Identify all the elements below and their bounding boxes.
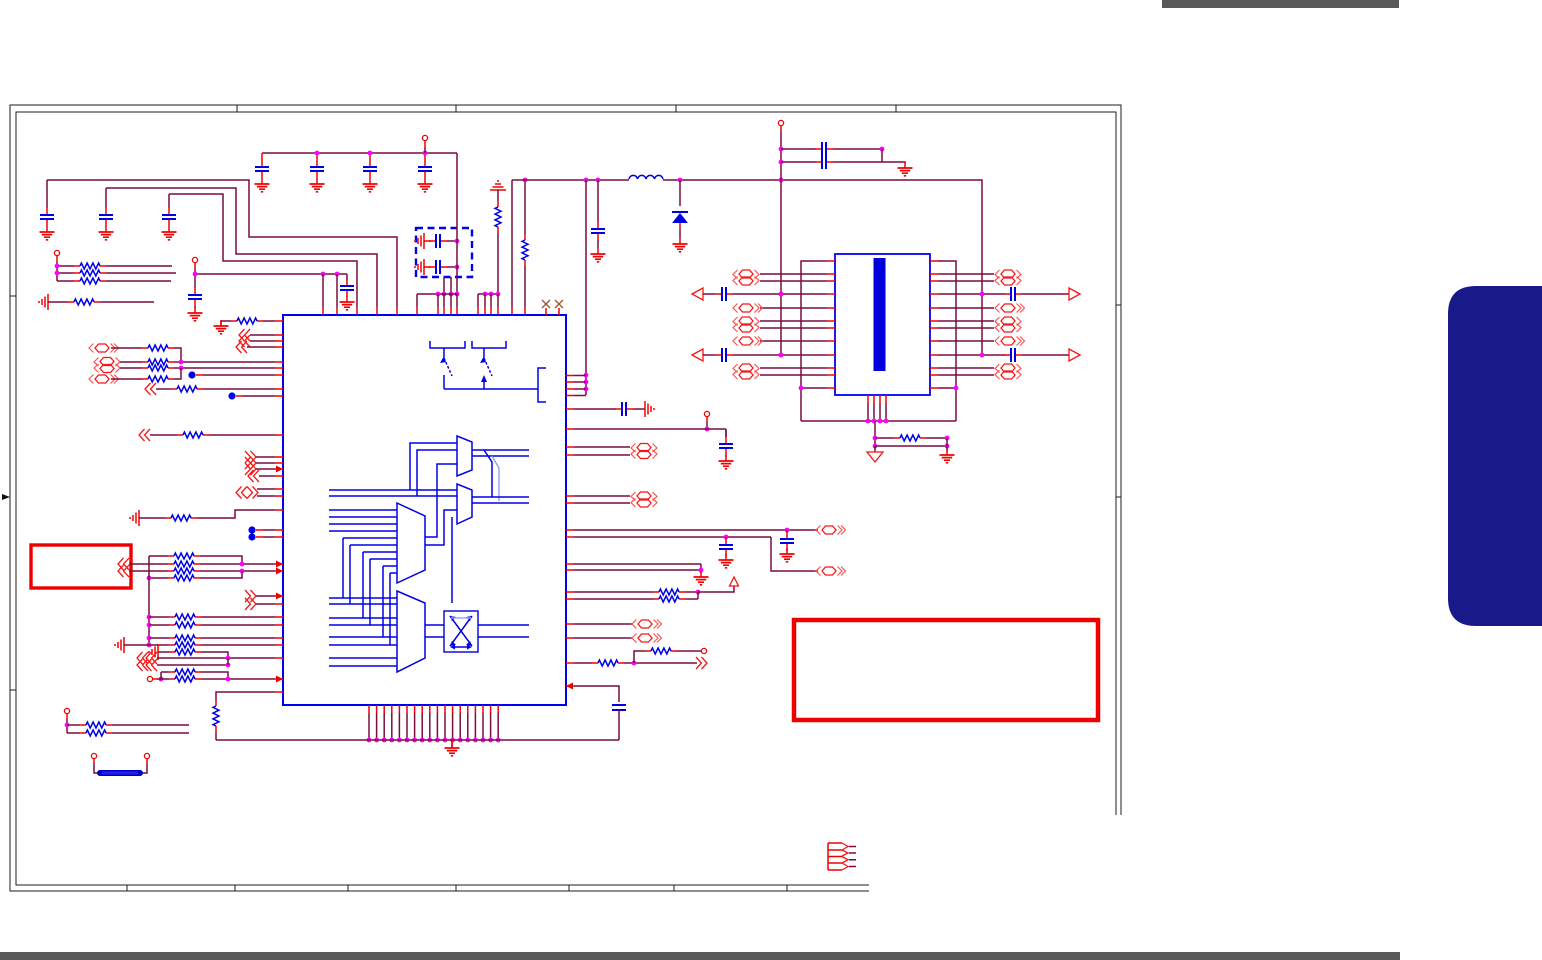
capacitor C4 <box>261 153 263 160</box>
wire nestB crossover <box>343 538 397 598</box>
resistor R8 chain <box>275 691 283 693</box>
wire net VDD1 to IC pin <box>47 180 397 307</box>
connector J19 <box>566 637 574 639</box>
red callout box <box>31 545 131 588</box>
capacitor C14 row <box>692 288 703 300</box>
connector J13 resistor R13 <box>89 375 119 384</box>
zone tick right border <box>1116 305 1121 497</box>
capacitor C16 row <box>930 293 938 295</box>
wire box stubs <box>444 277 451 294</box>
T1 bottom pin x868 <box>867 395 869 403</box>
zone arrow left border <box>2 494 10 500</box>
net chevron row 457 <box>245 451 256 463</box>
connector J3 <box>827 320 835 322</box>
wire T1 right bus <box>930 260 938 262</box>
resistor R30 row 663 <box>566 662 574 664</box>
junction dots power rail <box>315 151 320 156</box>
crosspoint arrows <box>450 616 472 646</box>
top gray bar <box>1162 0 1399 8</box>
net stub blue dot row 537 <box>248 533 255 540</box>
capacitor C6 <box>369 153 371 160</box>
wire nestA horizontals <box>329 490 457 496</box>
capacitor C13 <box>781 161 816 163</box>
connector J9 <box>930 340 938 342</box>
IC top pin x451 <box>450 294 452 307</box>
wire row 446 <box>875 445 947 447</box>
capacitor C2 <box>105 188 107 208</box>
resistor R29 row 599 <box>566 598 574 600</box>
net chevron resistor R18 row 564 <box>118 558 129 570</box>
IC top pin x444 <box>443 294 445 307</box>
connector J14 <box>566 446 574 448</box>
resistor R28 row 592 <box>566 591 574 593</box>
junction dots x781 <box>779 147 784 152</box>
IC U1 body <box>283 315 566 705</box>
wire right bus rows <box>566 375 574 377</box>
capacitor C15 row <box>692 349 703 361</box>
wire T1 center stem <box>874 421 876 446</box>
net stub blue dot row 530 <box>248 526 255 533</box>
wire x457 drop <box>456 153 458 294</box>
resistor R17 <box>149 555 168 557</box>
wire crosspoint outputs <box>478 625 529 637</box>
resistor R2 <box>57 272 74 274</box>
net chevron row 341 <box>239 335 250 347</box>
capacitor C8a below P2 <box>194 274 196 288</box>
wire T1 left bus <box>827 260 835 262</box>
mux M4 <box>397 591 425 672</box>
power pin P5 <box>704 411 709 416</box>
wire rail drop x512 <box>511 180 513 307</box>
wire main 3V rail <box>512 180 982 355</box>
resistor R25 with bar ground row 652 <box>149 644 158 660</box>
connector J11 resistor R10 <box>89 344 119 353</box>
capacitor C11 with signal ground <box>415 259 424 275</box>
net chevron row 596 <box>245 590 256 602</box>
wire mux M1 input a <box>410 443 457 490</box>
net chevron resistor R19 row 571 <box>118 565 129 577</box>
connector J5 <box>827 367 835 369</box>
wire mux M4 outputs <box>425 625 444 637</box>
no-connect pin x546 <box>545 308 547 315</box>
capacitor C7 <box>424 153 426 160</box>
wire mux M1 output jog <box>484 450 492 497</box>
resistor R31 branch <box>634 651 645 663</box>
IC top pin x438 <box>437 294 439 307</box>
net chevron resistor R15 row 435 <box>139 429 150 441</box>
capacitor C3 <box>168 194 170 208</box>
net chevron row 469 <box>245 463 256 475</box>
inductor L1 <box>629 175 663 179</box>
resistor R3 <box>57 280 74 282</box>
resistor R6 chain x525 <box>524 180 526 234</box>
net stub blue dot row 396 <box>228 392 235 399</box>
triangle net flag <box>698 586 734 592</box>
connector J20 comb <box>828 843 842 870</box>
capacitor C20 with bar ground <box>566 408 574 410</box>
zone ticks top border <box>237 105 896 112</box>
IC top pin x417 <box>416 294 418 307</box>
wire IC top group2 <box>478 293 498 295</box>
wire mux M2 outputs <box>472 497 529 503</box>
bottom gray bar <box>0 952 1400 960</box>
mux M1 <box>457 436 472 476</box>
switch SW2 <box>472 341 506 348</box>
dashed filter box <box>416 228 472 277</box>
connector J16 capacitor C21 <box>566 529 574 531</box>
red callout box 2 <box>794 620 1098 720</box>
connector J15 <box>566 495 574 497</box>
capacitor C10 with signal ground <box>415 233 424 249</box>
connector J1 <box>827 273 835 275</box>
connector J10 <box>930 367 938 369</box>
no-connect pin x559 <box>558 308 560 315</box>
crosspoint box U1a <box>444 611 478 652</box>
wire mux M3 output b <box>425 510 457 545</box>
transformer T1 core bar <box>874 258 886 371</box>
IC top pin x457 <box>456 294 458 307</box>
connector J7 <box>930 307 938 309</box>
wire mux M1 input b <box>417 450 457 496</box>
ground pair rows 564 570 <box>566 563 574 565</box>
connector J4 <box>827 340 835 342</box>
resistor R24 with bar ground row 645 <box>115 637 124 653</box>
wire left bus x149 <box>148 578 150 645</box>
wire rail drop x586 <box>585 180 587 395</box>
bracket contact <box>538 368 546 402</box>
diode D1 <box>679 180 681 206</box>
resistor R21 row 617 <box>149 616 169 618</box>
zone ticks left border <box>10 296 16 690</box>
zone ticks bottom border <box>127 885 787 891</box>
connector J6 <box>930 273 938 275</box>
wire net VDD3 to IC pin <box>169 194 357 307</box>
power pin P4 <box>778 120 783 125</box>
T1 bottom pin x886 <box>885 395 887 403</box>
resistor R23 row 638 <box>149 637 169 639</box>
navy side tab <box>1448 286 1542 626</box>
wire quad vertical <box>148 556 150 578</box>
wire to IC top pin b <box>336 274 338 307</box>
power symbol and resistor R5 chain <box>490 181 506 190</box>
net chevron row 658 <box>137 652 148 664</box>
connector J2 <box>827 307 835 309</box>
wire to ground gA <box>882 149 905 163</box>
net chevron pair rows 489 496 <box>257 488 275 490</box>
resistor R22 row 625 <box>149 624 169 626</box>
power pin P6 resistor R27 row 679 <box>147 676 152 681</box>
IC top pin x478 <box>477 294 479 307</box>
wire T1 right bottom row <box>930 387 938 389</box>
switch SW1 <box>430 341 465 348</box>
wire to IC top pin a <box>322 274 324 307</box>
mux M2 <box>457 484 472 524</box>
capacitor C19 chain <box>566 685 574 687</box>
sheet inner border <box>16 112 1116 885</box>
wire T1 left bottom row <box>827 387 835 389</box>
fuse F1 <box>91 753 96 758</box>
wire P2 net <box>195 273 347 275</box>
capacitor C5 <box>316 153 318 160</box>
ground gD <box>451 740 453 748</box>
capacitor C17 row <box>930 354 938 356</box>
net chevron row 604 <box>245 598 256 610</box>
resistor R12 <box>120 367 142 369</box>
wire T1 bottom bus <box>801 420 956 422</box>
capacitor C8 <box>346 274 348 280</box>
capacitor C18 <box>725 429 727 437</box>
sheet outer border <box>10 105 1121 891</box>
IC top pin x498 <box>497 294 499 307</box>
resistor R7 <box>875 437 894 439</box>
power pin P2 <box>192 257 197 262</box>
wire power rail <box>262 152 457 154</box>
net stub blue dot row 375 <box>188 371 195 378</box>
wire mux M1 outputs <box>472 450 529 456</box>
net chevron row 476 <box>248 470 259 482</box>
wire row 429 to P5 <box>566 428 574 430</box>
wire mux M4 inputs <box>329 597 397 599</box>
connector J12 resistor R11 <box>94 358 120 373</box>
transformer T1 body <box>835 254 930 395</box>
capacitor C12 <box>781 148 816 150</box>
wire mux M3 direct inputs <box>329 510 397 531</box>
resistor R20 <box>149 577 168 579</box>
net chevron row 347 <box>236 341 247 353</box>
wire net VDD2 to IC pin <box>106 188 377 307</box>
ground gB <box>946 438 948 451</box>
connector J17 capacitor C22 <box>566 536 574 538</box>
wire mux M2 input c <box>451 517 453 603</box>
net chevron resistor R14 row 389 <box>145 383 156 395</box>
wire IC bottom bus <box>216 739 619 741</box>
capacitor C9 chain <box>597 180 599 222</box>
resistor R16 with bar ground <box>130 510 139 526</box>
IC top pin x491 <box>490 294 492 307</box>
net chevron row 335 <box>239 329 250 341</box>
junction dots main rail <box>584 178 589 183</box>
capacitor C1 <box>46 180 48 208</box>
power pin P3 <box>54 250 59 255</box>
resistor R4 with signal ground <box>39 294 48 310</box>
power pin P7 resistor R32 R33 <box>64 708 69 713</box>
connector J18 <box>566 623 574 625</box>
power pin P1 <box>422 135 427 140</box>
T1 bottom pin x880 <box>879 395 881 403</box>
IC top pin x485 <box>484 294 486 307</box>
IC bottom pins <box>368 705 370 713</box>
mux M3 <box>397 503 425 583</box>
resistor R26 row 672 <box>161 671 169 673</box>
net chevron row 463 <box>245 457 256 469</box>
wire mux M3 output a <box>425 464 457 537</box>
wire IC top group1 <box>417 293 457 295</box>
wire switch bus <box>444 388 538 390</box>
triangle ground gC <box>874 446 876 452</box>
net chevron row 665 <box>137 659 148 671</box>
resistor R9 with ground <box>220 321 222 326</box>
resistor R1 <box>57 265 74 267</box>
T1 bottom pin x874 <box>873 395 875 403</box>
connector J8 <box>930 320 938 322</box>
